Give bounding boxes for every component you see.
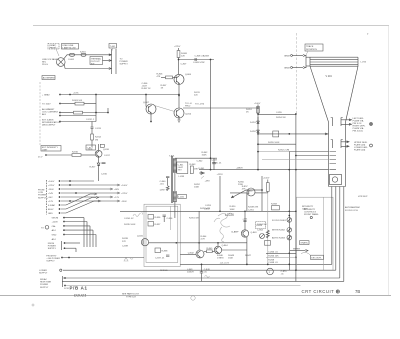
label box DC RESTORE: [86, 145, 96, 150]
svg-text:-1480V: -1480V: [236, 168, 243, 170]
svg-text:C-864: C-864: [257, 230, 264, 232]
svg-text:Q-806: Q-806: [185, 74, 192, 76]
wire grid lead g3: [262, 159, 329, 161]
wire -54V line: [180, 263, 332, 265]
svg-text:R-838: R-838: [162, 251, 169, 253]
wire: [61, 103, 75, 105]
resistor R-853: [257, 107, 260, 114]
svg-text:6.3VAC: 6.3VAC: [48, 204, 56, 207]
leader: [306, 51, 308, 55]
wire base: [161, 76, 166, 78]
wire CRT return 3: [339, 187, 341, 279]
svg-text:TRACE: TRACE: [306, 45, 314, 48]
CRT funnel: [310, 66, 329, 122]
wire: [246, 237, 248, 264]
svg-text:R-835 100K: R-835 100K: [124, 224, 136, 226]
wire -1480V long line: [199, 169, 329, 171]
wire: [61, 115, 96, 117]
svg-text:PIN 2: PIN 2: [185, 106, 191, 108]
svg-text:R-852 2.2M: R-852 2.2M: [278, 150, 289, 152]
wire vertical bus: [95, 95, 97, 122]
svg-text:1 AMP SLOW: 1 AMP SLOW: [62, 47, 76, 50]
svg-text:-54 +0.1V: -54 +0.1V: [220, 262, 230, 264]
svg-text:C-843: C-843: [211, 160, 218, 162]
page right edge: [388, 26, 390, 296]
label box T-601: [109, 44, 117, 49]
wire pot arm: [290, 250, 306, 252]
svg-text:R-836: R-836: [155, 217, 162, 219]
svg-text:100K: 100K: [202, 155, 208, 157]
wire winding tail: [174, 205, 176, 218]
svg-text:SIN AC: SIN AC: [40, 278, 47, 281]
wire y211 bus: [120, 210, 296, 212]
svg-text:L-974: L-974: [361, 62, 367, 64]
svg-text:7B: 7B: [355, 289, 360, 294]
svg-text:+100V: +100V: [254, 103, 261, 105]
wire: [66, 285, 301, 287]
heater box: [330, 175, 342, 185]
svg-text:R-814: R-814: [95, 137, 102, 139]
wire bus y270: [63, 269, 336, 271]
shield box inner: [146, 206, 178, 262]
svg-text:C-817: C-817: [87, 148, 94, 150]
svg-text:+12V: +12V: [48, 201, 54, 203]
svg-text:CLAMP: CLAMP: [231, 231, 239, 234]
svg-text:L1020: L1020: [225, 213, 234, 217]
fuse F-802: [81, 53, 86, 56]
transistor Q-810: [95, 150, 102, 157]
svg-text:C-853: C-853: [205, 205, 212, 207]
svg-text:ELEV: ELEV: [48, 209, 54, 211]
svg-text:1 MEG: 1 MEG: [217, 258, 224, 260]
svg-text:D1U21: D1U21: [74, 292, 86, 297]
wire CRT return 4: [343, 187, 345, 282]
page top edge: [33, 25, 389, 27]
svg-text:D-852: D-852: [250, 131, 257, 133]
svg-text:EXT Z AXIS: EXT Z AXIS: [42, 119, 54, 122]
transformer winding 1: [173, 159, 176, 173]
svg-text:-54V: -54V: [48, 197, 53, 199]
wire: [61, 112, 74, 114]
transistor Q-844: [214, 246, 221, 253]
dashed box pot left: [256, 222, 266, 229]
svg-text:GATE: GATE: [302, 208, 308, 211]
svg-text:SEE PARTS LIST: SEE PARTS LIST: [122, 293, 140, 296]
thermal cutout box: [90, 57, 103, 65]
resistor R-838: [155, 248, 161, 253]
svg-text:C-809 1/2W: C-809 1/2W: [193, 62, 205, 64]
svg-text:-150V: -150V: [48, 189, 54, 191]
wire: [84, 103, 96, 105]
svg-text:C-870: C-870: [281, 271, 288, 273]
wire: [179, 59, 215, 61]
node row y257.5: [61, 257, 63, 259]
wire: [81, 154, 95, 156]
label box TRACE ROTATION: [305, 44, 323, 51]
svg-text:R-807 1K: R-807 1K: [142, 88, 152, 90]
connector group 5 rows: [45, 226, 49, 230]
transistor Q-806: [174, 74, 184, 84]
wire collector up: [98, 144, 100, 150]
wire: [65, 242, 80, 244]
svg-text:+10%: +10%: [73, 93, 79, 95]
svg-text:D-851: D-851: [250, 122, 257, 124]
svg-text:C-834 .02: C-834 .02: [124, 218, 134, 220]
svg-text:C-816: C-816: [101, 174, 108, 176]
resistor R-845: [207, 250, 213, 253]
svg-text:+225V: +225V: [217, 174, 224, 176]
resistor R-808: [177, 51, 180, 58]
wire vertical: [261, 176, 263, 211]
wire: [64, 55, 112, 59]
zener D-852: [257, 130, 260, 133]
wire: [83, 112, 109, 114]
svg-text:12K: 12K: [181, 56, 185, 58]
wire CRT return 1: [331, 187, 333, 265]
wire: [107, 108, 109, 113]
svg-text:R-866 10K: R-866 10K: [268, 255, 279, 257]
resistor R-804: [74, 111, 83, 114]
bracket: [61, 241, 63, 250]
svg-text:Q-843: Q-843: [251, 232, 258, 234]
svg-text:7KV: 7KV: [178, 170, 183, 172]
svg-text:TYPE 547: TYPE 547: [126, 296, 137, 298]
pot R-862 INTENSITY: [287, 228, 292, 233]
wire: [61, 94, 179, 96]
svg-text:+225V: +225V: [174, 46, 181, 48]
svg-text:+ GRAT: + GRAT: [42, 94, 50, 97]
svg-text:1M: 1M: [95, 140, 98, 142]
svg-text:ASTIGMATISM: ASTIGMATISM: [345, 206, 360, 209]
dashed label box GRAT: [48, 44, 59, 50]
svg-text:100K: 100K: [194, 187, 200, 189]
sheet circle: [191, 296, 195, 300]
svg-text:S-801: S-801: [80, 52, 87, 54]
svg-text:ADJ: ADJ: [52, 238, 56, 241]
svg-text:ALIGNMENT: ALIGNMENT: [43, 77, 56, 80]
svg-text:R-803 10K: R-803 10K: [72, 100, 83, 102]
pencil note: [205, 276, 210, 278]
wire: [305, 55, 307, 68]
svg-text:C-837 .01: C-837 .01: [155, 258, 165, 260]
capacitor C-816: [102, 163, 106, 164]
label box LINE FUSE: [62, 44, 79, 50]
svg-text:TO L-874: TO L-874: [195, 104, 205, 106]
wire: [178, 58, 180, 75]
svg-text:R-809: R-809: [203, 56, 210, 58]
svg-text:+54V: +54V: [48, 193, 54, 195]
svg-text:+100V: +100V: [121, 185, 128, 187]
label box EXT INTENSITY LIMIT: [41, 146, 61, 152]
svg-text:GRATIC: GRATIC: [300, 242, 308, 245]
resistor R-803: [75, 102, 84, 105]
svg-text:GND: GND: [52, 235, 57, 237]
svg-text:C-812 .1: C-812 .1: [86, 119, 95, 121]
svg-text:R-847: R-847: [245, 255, 252, 257]
grid electrodes in neck: [330, 152, 337, 170]
wire emitter down with diode: [98, 157, 100, 163]
transistor Q-814: [174, 108, 184, 118]
resistor R-843: [190, 166, 193, 174]
svg-text:+12V: +12V: [114, 197, 120, 199]
svg-text:GRAT: GRAT: [284, 66, 290, 69]
deflection plates pair 1: [331, 118, 343, 127]
svg-text:CRT CIRCUIT: CRT CIRCUIT: [302, 289, 335, 294]
wire: [244, 211, 246, 230]
svg-text:SUPPLY: SUPPLY: [46, 261, 55, 263]
pot R-861 FOCUS: [287, 218, 292, 223]
svg-text:Q-814: Q-814: [185, 114, 192, 116]
svg-text:GRAT: GRAT: [284, 54, 290, 57]
wire fan diagonal 2: [61, 198, 96, 210]
svg-text:C-868 .01: C-868 .01: [268, 262, 278, 264]
wire: [174, 202, 176, 205]
svg-text:T-801: T-801: [169, 156, 175, 158]
wire: [174, 173, 176, 192]
svg-text:L-841: L-841: [179, 197, 185, 199]
svg-text:R-816: R-816: [72, 152, 79, 154]
svg-text:FOCUS R-861: FOCUS R-861: [272, 220, 287, 222]
shield box outer: [144, 204, 180, 266]
capacitor C-813 chain: [91, 122, 93, 128]
svg-text:C-851: C-851: [248, 209, 255, 211]
svg-text:R-853 47K: R-853 47K: [200, 208, 211, 210]
node row4: [59, 115, 61, 117]
svg-text:PLUG: PLUG: [42, 64, 48, 66]
transistor Q-841: [141, 239, 148, 246]
resistor box on line: [273, 131, 279, 137]
svg-text:L-838: L-838: [179, 176, 185, 178]
svg-text:4.7K: 4.7K: [201, 239, 206, 241]
svg-text:ALIGNMENT: ALIGNMENT: [42, 108, 55, 111]
sheet ref circle: [267, 268, 274, 275]
capacitor box C-841: [177, 162, 188, 174]
transformer core: [171, 156, 173, 203]
capacitor C-837: [166, 255, 169, 256]
resistor R-837: [148, 222, 154, 227]
resistor R-816: [72, 154, 81, 157]
wire y151.6 stub: [258, 151, 289, 153]
svg-text:Q-807: Q-807: [143, 102, 150, 104]
svg-text:Q-841: Q-841: [137, 236, 144, 238]
svg-text:V 219: V 219: [326, 75, 333, 78]
svg-text:FRONT PANEL: FRONT PANEL: [304, 213, 320, 216]
transformer winding 2: [173, 191, 176, 201]
wire bus y281.4: [62, 280, 344, 282]
wire: [257, 105, 259, 170]
leader arc: [301, 252, 311, 256]
transistor Q-842: [196, 250, 204, 258]
svg-text:R-851 1M: R-851 1M: [189, 218, 199, 220]
wire: [61, 121, 96, 123]
svg-text:C-855: C-855: [276, 112, 283, 114]
transistor Q-843: [241, 230, 248, 237]
svg-text:Q-810: Q-810: [103, 149, 110, 151]
deflection plates pair 2: [331, 140, 343, 149]
svg-text:150K: 150K: [228, 258, 234, 260]
svg-text:C-807: C-807: [181, 64, 188, 66]
svg-text:SUPPLY: SUPPLY: [39, 272, 48, 274]
wire emitter down: [178, 84, 180, 108]
svg-text:P/B A1: P/B A1: [70, 286, 88, 291]
svg-text:INTEN R-862: INTEN R-862: [272, 230, 286, 232]
svg-text:ASTIG R-863: ASTIG R-863: [272, 237, 286, 240]
svg-text:R-855 100K: R-855 100K: [268, 142, 280, 144]
svg-text:100UH: 100UH: [187, 271, 194, 273]
resistor R-814: [91, 134, 94, 140]
svg-text:SUPPLY: SUPPLY: [48, 248, 57, 250]
pencil scrawl: [218, 214, 230, 228]
diode D-816: [97, 163, 100, 166]
zener D-851: [257, 121, 260, 124]
wire: [103, 60, 112, 62]
wire: [112, 48, 114, 51]
resistor collector load: [100, 144, 104, 147]
svg-text:DECOUPL: DECOUPL: [311, 257, 322, 259]
svg-text:WIPER: WIPER: [293, 248, 300, 250]
capacitor C-840 column left: [166, 177, 169, 178]
ground below Q-814: [177, 118, 180, 122]
svg-text:GND: GND: [48, 213, 53, 215]
svg-text:HTR SUP: HTR SUP: [358, 196, 368, 198]
label box ALIGNMENT: [42, 76, 55, 80]
CRT faceplate lines: [310, 56, 358, 58]
svg-text:47K: 47K: [242, 189, 246, 191]
section boundary dashed: [296, 33, 298, 114]
wire: [178, 48, 180, 51]
svg-text:R-854 1M: R-854 1M: [276, 117, 286, 119]
svg-text:+100V: +100V: [263, 178, 270, 180]
svg-text:-150V: -150V: [121, 201, 127, 203]
box intensity controls: [297, 197, 334, 270]
svg-text:INTENSIFICATION: INTENSIFICATION: [42, 121, 61, 124]
registration mark bottom left: [32, 304, 35, 307]
wire Q-841 output: [149, 242, 247, 244]
wire: [267, 193, 269, 265]
resistor R-836: [148, 215, 154, 220]
plate leads right 1: [341, 119, 352, 126]
connector bracket: [46, 180, 48, 215]
svg-text:T-601: T-601: [110, 46, 116, 48]
wire: [246, 193, 248, 211]
neck bottom: [329, 186, 346, 188]
pilot lamp B-801: [57, 58, 66, 67]
label box L-841: [178, 194, 187, 198]
wire: [258, 114, 296, 116]
pencil squiggle nf: [133, 213, 143, 217]
wire collector bus down: [150, 114, 152, 122]
transistor Q-850: [247, 188, 255, 196]
svg-text:SUPPLY: SUPPLY: [40, 287, 49, 289]
connector J-801: [111, 49, 113, 74]
svg-text:R-839: R-839: [122, 238, 129, 240]
svg-text:+80V: +80V: [114, 189, 120, 191]
svg-text:27K: 27K: [122, 241, 126, 243]
svg-text:PIN 4 (D2): PIN 4 (D2): [353, 131, 363, 133]
wire: [217, 243, 219, 247]
capacitor C-836: [163, 215, 166, 216]
wire emitter of Q-814 long right: [183, 107, 258, 109]
svg-text:FOCUS COIL: FOCUS COIL: [345, 210, 359, 212]
resistor R-856: [266, 183, 269, 192]
svg-text:PLATE (D4): PLATE (D4): [354, 148, 366, 151]
svg-text:R-849 47K: R-849 47K: [248, 207, 259, 209]
wire vertical x289: [288, 152, 290, 271]
svg-text:ROTATION: ROTATION: [306, 48, 317, 51]
svg-text:F-801: F-801: [69, 59, 75, 61]
svg-text:TO 100V: TO 100V: [42, 104, 51, 106]
wire: [219, 176, 221, 211]
wire: [204, 250, 207, 252]
svg-text:Q-844: Q-844: [222, 245, 229, 247]
svg-text:25 V: 25 V: [38, 157, 43, 159]
svg-text:+4KV: +4KV: [205, 181, 211, 183]
leader wire: [56, 49, 59, 56]
pot circle left: [260, 234, 265, 239]
svg-text:(MOD) INPUT: (MOD) INPUT: [42, 125, 56, 127]
resistor R-858: [272, 206, 280, 210]
wire inner: [169, 206, 171, 230]
plate leads right 2: [341, 141, 349, 148]
wire bus y278: [63, 277, 340, 279]
svg-text:LINE VOLTAGE: LINE VOLTAGE: [42, 58, 58, 61]
wire: [230, 192, 247, 194]
svg-text:C-836: C-836: [167, 218, 174, 220]
wire x209 vertical to transformer: [210, 60, 212, 170]
svg-text:R-837: R-837: [155, 224, 162, 226]
wire to neck y133.9: [258, 133, 329, 135]
wire: [65, 68, 112, 70]
wire: [246, 189, 262, 191]
face side ticks: [309, 57, 311, 66]
svg-text:+225V: +225V: [48, 185, 55, 187]
front panel dashed line: [39, 82, 41, 145]
svg-text:C-842: C-842: [197, 161, 204, 163]
wire row1 bus into base Q-807: [145, 95, 147, 107]
label box PIN14: [311, 255, 324, 259]
svg-text:R-843: R-843: [190, 164, 197, 166]
svg-text:+225: +225: [242, 219, 248, 221]
svg-text:GEOM: GEOM: [52, 218, 59, 220]
wire fan diagonal 3: [61, 201, 98, 213]
bracket: [62, 276, 64, 287]
wire grid lead g2: [296, 155, 329, 157]
wire: [180, 254, 196, 256]
svg-text:100K: 100K: [230, 209, 236, 211]
wire: [155, 106, 175, 112]
svg-text:SUPPLY: SUPPLY: [120, 64, 129, 66]
svg-text:LIMIT: LIMIT: [42, 150, 48, 152]
svg-text:ADJ: ADJ: [52, 229, 56, 232]
wire CRT return 2: [335, 187, 337, 271]
page bottom edge: [0, 295, 391, 297]
capacitor C-808: [195, 58, 196, 61]
wire top of transformer: [175, 157, 217, 159]
svg-text:R-858: R-858: [271, 204, 278, 206]
svg-text:+225V: +225V: [121, 193, 128, 195]
svg-text:+100V: +100V: [52, 222, 59, 224]
wire y144: [258, 143, 296, 145]
wire: [222, 249, 247, 251]
wire: [47, 154, 72, 156]
label box right: [300, 241, 310, 245]
wire: [64, 65, 67, 69]
pot R-863 ASTIG: [287, 235, 292, 240]
fuse F-801: [70, 53, 75, 56]
svg-text:TO: TO: [41, 227, 44, 229]
svg-text:C-839: C-839: [122, 246, 129, 248]
svg-text:47K: 47K: [157, 76, 161, 78]
